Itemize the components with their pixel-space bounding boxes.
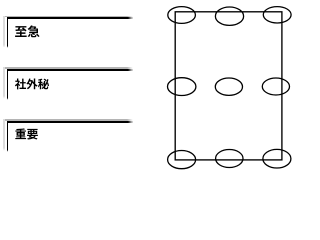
seat ellipse bottom-right	[263, 149, 291, 168]
label bracket 2 shadow vertical line	[3, 67, 5, 99]
seat ellipse top-left	[168, 7, 196, 24]
label bracket 2 black vertical line	[7, 69, 9, 100]
seat ellipse top-right	[263, 7, 291, 23]
seat ellipse middle-right	[262, 78, 289, 95]
label bracket 2 shadow horizontal line	[3, 67, 133, 69]
label bracket 3 black vertical line	[7, 121, 9, 152]
seat ellipse middle-center	[215, 78, 242, 95]
label bracket 2 black horizontal line	[7, 69, 134, 71]
label bracket 3 black horizontal line	[7, 121, 134, 123]
text 至急	[14, 24, 40, 38]
seat ellipse middle-left	[168, 78, 196, 96]
label bracket 1 black horizontal line	[7, 17, 134, 19]
label bracket 1 black vertical line	[7, 17, 9, 48]
text 重要	[14, 127, 40, 140]
table rectangle	[175, 12, 282, 160]
label bracket 3 shadow vertical line	[3, 119, 5, 151]
label bracket 1 shadow horizontal line	[3, 16, 133, 18]
label bracket 3 shadow horizontal line	[3, 119, 133, 121]
seat ellipse top-middle	[215, 7, 243, 25]
label bracket 1 shadow vertical line	[3, 16, 5, 48]
seat ellipse bottom-middle	[216, 150, 243, 168]
seat ellipse bottom-left	[168, 151, 196, 169]
text 社外秘	[14, 77, 52, 90]
seating diagram	[160, 0, 300, 173]
